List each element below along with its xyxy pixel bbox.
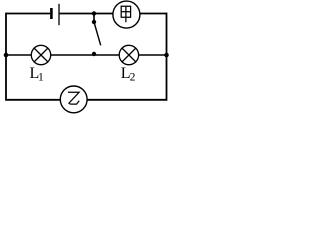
wire: left vertical wire xyxy=(5,13,7,101)
lamp L1 cross xyxy=(34,48,48,62)
battery B (cell): short thick negative plate xyxy=(50,8,53,19)
svg-text:2: 2 xyxy=(130,72,136,84)
wire: middle wire centre segment (lamp L1 to lamp L2) xyxy=(51,54,120,56)
wire: bottom wire left segment (bottom-left corner to meter 乙) xyxy=(6,99,60,101)
node: junction dot on top wire above switch xyxy=(92,11,96,15)
lamp L2 cross xyxy=(122,48,136,62)
battery B (cell): long thin positive plate xyxy=(58,4,60,25)
node: switch S lower contact dot on middle wire xyxy=(92,52,96,56)
wire: middle wire right segment (lamp L2 to right wire) xyxy=(139,54,167,56)
node: junction dot left wire / middle wire xyxy=(4,53,9,58)
meter U2 乙 (voltmeter) circle xyxy=(60,86,87,113)
wire: top wire right segment (meter 甲 to top-right corner) xyxy=(140,13,167,15)
lamp L1 circle xyxy=(31,45,50,64)
wire: right vertical wire xyxy=(166,13,168,101)
meter U1 甲 character glyph xyxy=(121,6,130,22)
wire: bottom wire right segment (meter 乙 to bottom-right corner) xyxy=(87,99,166,101)
node: junction dot right wire / middle wire xyxy=(164,53,169,58)
wire: top wire left segment (top-left corner to battery) xyxy=(6,13,50,15)
lamp L2 circle xyxy=(119,45,138,64)
switch S blade (open) xyxy=(94,22,101,45)
meter U1 甲 (ammeter) circle xyxy=(113,1,140,28)
node: switch S pivot dot xyxy=(92,20,96,24)
wire: middle wire left segment (left wire to lamp L1) xyxy=(6,54,31,56)
wire: top wire middle segment (battery to meter 甲) xyxy=(60,13,113,15)
meter U2 乙 character glyph xyxy=(68,92,79,104)
wire: switch stub from top wire down to pivot xyxy=(93,14,95,22)
svg-text:1: 1 xyxy=(38,72,44,84)
